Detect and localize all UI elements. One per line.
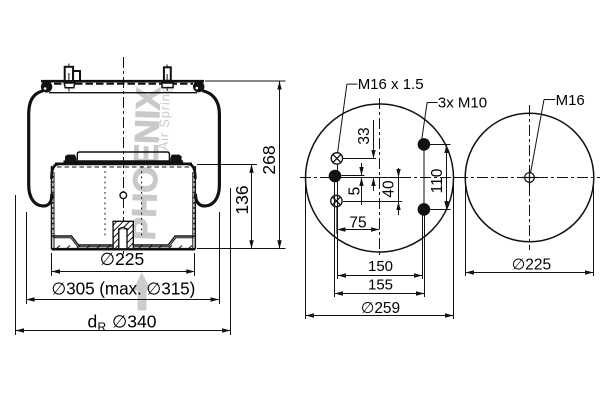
svg-text:∅225: ∅225 [100,249,144,269]
middle ext lines vertical bottom [306,150,454,319]
svg-text:136: 136 [232,185,252,214]
svg-text:150: 150 [368,258,393,275]
svg-text:3x M10: 3x M10 [438,94,487,111]
label 3x M10 [422,103,438,140]
middle ext lines horizontal [342,145,451,210]
dimension 5 [359,163,363,205]
fitting M16x1.5 top [331,153,342,164]
dim 268 extension lines [197,81,286,249]
bellows outline left [29,91,52,206]
stud right [162,65,173,92]
svg-text:R: R [98,320,107,334]
middle centerline vertical [379,98,381,258]
center bolt block hatched [113,221,133,249]
right crosshair vertical [529,105,531,250]
air fitting dot [329,170,342,183]
right crosshair horizontal [457,177,600,179]
svg-text:d: d [88,311,98,331]
svg-text:5: 5 [347,187,364,196]
svg-text:∅340: ∅340 [112,311,157,331]
middle circle [306,104,454,252]
dimension Ø305 (max. Ø315) [26,212,220,304]
center fitting M16 [522,170,538,186]
dimension 75 [337,207,380,234]
bolt hole M10 top right [418,138,431,151]
piston top rim [51,164,195,179]
svg-text:268: 268 [259,145,279,174]
dimension Ø225 left view [52,253,195,276]
piston bottom flange [52,236,196,249]
watermark PHOENIX logo [125,78,174,311]
dimension 136 [249,164,253,249]
dimension 40 [396,168,400,215]
fitting M16x1.5 bottom [331,195,342,206]
svg-text:155: 155 [368,277,393,294]
svg-text:∅225: ∅225 [512,257,551,274]
right circle [465,113,594,242]
svg-text:M16 x 1.5: M16 x 1.5 [358,76,424,93]
rolled bead right [193,81,204,92]
top plate [41,81,204,93]
label M16 [531,100,556,173]
flange hatch [56,246,192,250]
piston center hole [120,192,127,199]
stud left [64,64,80,92]
dimension Ø225 right view [466,182,594,276]
label M16 x 1.5 [338,84,358,153]
svg-text:∅305 (max. ∅315): ∅305 (max. ∅315) [51,279,195,299]
centerline left view [123,57,125,258]
bellows outline right [196,91,220,206]
dimension Ø259 [306,313,454,317]
rolled bead left [41,81,52,92]
svg-text:75: 75 [349,215,366,232]
piston inner lines [105,166,142,236]
svg-text:40: 40 [381,180,398,198]
dimension 33 [371,120,375,191]
bolt hole M10 bottom right [418,203,431,216]
piston clamp bump right [170,155,183,165]
svg-text:M16: M16 [556,92,585,109]
dimension 110 [444,145,448,210]
dimension 268 [277,81,281,249]
dimension dR Ø340 [16,188,231,335]
piston clamp bump left [64,155,77,165]
piston rim band under plate [64,161,184,164]
dimension 150 [338,273,423,277]
middle centerline horizontal [300,177,459,179]
dimension 155 [335,291,425,295]
svg-text:Air Springs: Air Springs [156,78,174,151]
piston outer walls [52,166,196,249]
svg-text:33: 33 [356,127,373,144]
piston insert plate [77,152,169,161]
svg-text:110: 110 [429,168,446,193]
svg-text:∅259: ∅259 [361,300,400,317]
